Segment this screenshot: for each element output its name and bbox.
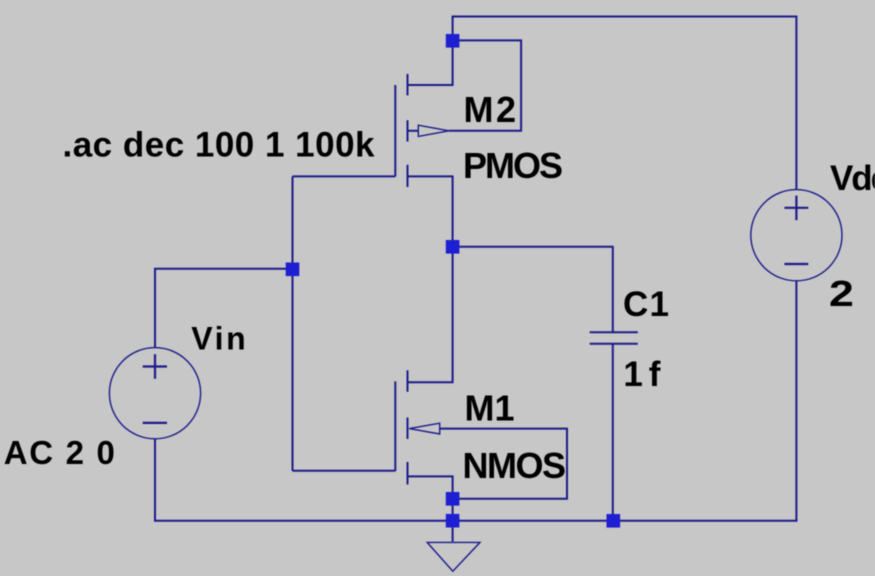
svg-text:2: 2 [829,273,854,314]
svg-text:M1: M1 [465,388,515,429]
svg-text:1f: 1f [623,355,660,394]
svg-text:Vin: Vin [191,321,246,357]
svg-text:AC 2 0: AC 2 0 [4,434,115,471]
svg-text:C1: C1 [623,285,669,324]
svg-text:NMOS: NMOS [463,445,567,486]
svg-text:PMOS: PMOS [463,145,563,186]
svg-text:M2: M2 [464,89,517,130]
svg-text:Vdd: Vdd [830,159,875,198]
svg-text:.ac dec 100 1 100k: .ac dec 100 1 100k [63,126,376,165]
